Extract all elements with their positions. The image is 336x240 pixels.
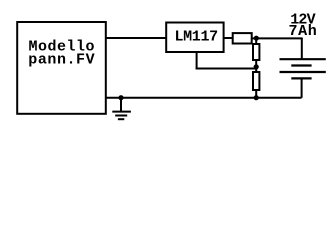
wire PV output to LM117 input [106, 37, 166, 39]
wire stub node to R2 top [255, 38, 257, 44]
svg-text:7Ah: 7Ah [289, 23, 318, 40]
wire R2 bottom to R3 top through ADJ node [255, 60, 257, 72]
wire LM117 ADJ pin vertical drop [196, 52, 198, 70]
wire R1 to battery positive rail [252, 37, 303, 39]
ground bar long [112, 111, 131, 113]
regulator U1 LM117 box [166, 23, 223, 53]
resistor R3 (vertical, lower) [253, 72, 259, 90]
battery B1 plate long upper [280, 58, 326, 60]
svg-text:pann.FV: pann.FV [28, 52, 95, 69]
node junction dot: ground tap [118, 95, 123, 100]
node junction dot: ADJ node between R2 and R3 [254, 64, 259, 69]
battery B1 plate long lower [280, 71, 326, 73]
PV panel model block [17, 22, 106, 114]
resistor R1 (horizontal) [233, 33, 252, 43]
svg-text:LM117: LM117 [175, 28, 218, 45]
wire R3 bottom to ground bus [255, 90, 257, 98]
resistor R2 (vertical, upper) [253, 44, 259, 60]
ground bar short [118, 118, 124, 120]
battery B1 plate short upper [291, 64, 311, 66]
battery B1 bottom stub [301, 78, 303, 97]
node junction dot: R3 bottom on ground bus [254, 95, 259, 100]
node junction dot: output rail / R2 top [254, 36, 259, 41]
battery B1 plate short lower [291, 77, 311, 79]
wire LM117 ADJ pin horizontal to ADJ node [196, 68, 257, 70]
ground stub [120, 98, 122, 112]
battery B1 top stub [301, 38, 303, 59]
wire ground bus (PV negative to battery negative) [106, 97, 302, 99]
ground bar middle [115, 115, 127, 117]
wire LM117 output to resistor R1 [224, 37, 233, 39]
